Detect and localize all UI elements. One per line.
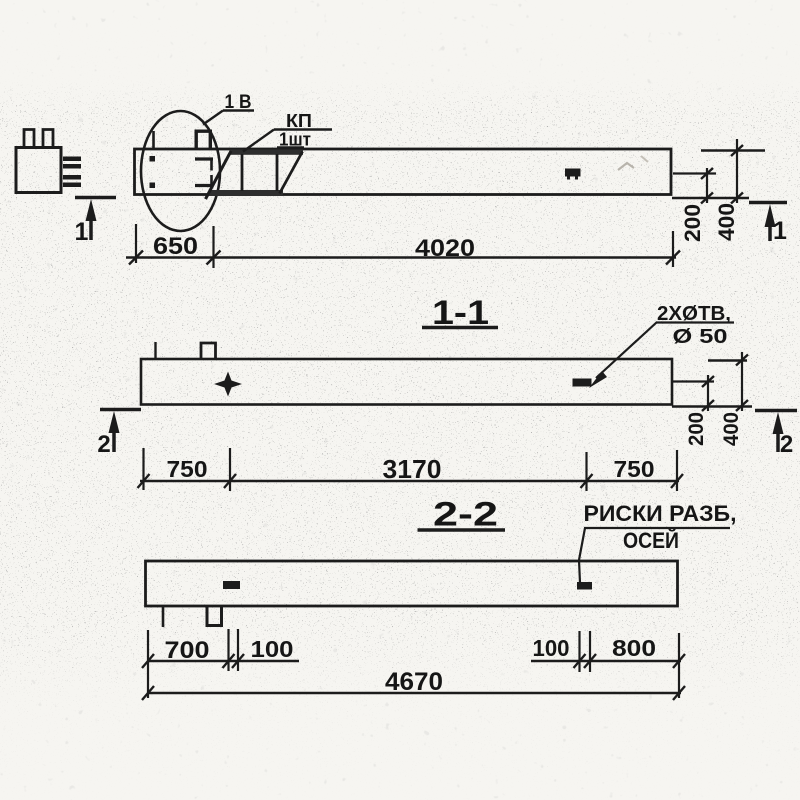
embedded plate feet	[567, 177, 570, 180]
view1 right: bottom extension line	[672, 197, 749, 199]
2-2 ext x=590	[589, 631, 591, 672]
embedded plate bar 2	[63, 164, 81, 169]
tick slash 650 left	[129, 251, 143, 265]
console bottom plate (dark)	[210, 190, 284, 196]
weld dot upper	[150, 156, 156, 162]
svg-text:400: 400	[720, 412, 743, 446]
2-2 overall slash right	[673, 686, 685, 700]
lifting loop tab A	[24, 130, 34, 148]
section mark 1 right: arrow	[765, 204, 776, 227]
1-1 right: bottom extension	[672, 405, 752, 407]
embedded plate bar 3	[63, 175, 81, 180]
1-1 dim 400 line	[741, 352, 743, 411]
label RISKI leader vert	[579, 560, 580, 583]
console right diagonal	[280, 152, 303, 194]
2-2 slash at 679	[673, 654, 685, 668]
section mark 2 left: arrow	[109, 411, 120, 433]
2-2 slash at 590	[584, 654, 596, 668]
detail ellipse	[141, 111, 220, 231]
lifting loop view 1	[196, 131, 210, 149]
1-1 slash at 143.5	[138, 474, 150, 488]
section mark 2 right: bar	[755, 409, 797, 413]
1-1 dim extension x=586.5	[585, 452, 587, 491]
beam outline view 2-2	[146, 561, 678, 606]
svg-text:100: 100	[533, 635, 570, 661]
view1 dim 200 line	[706, 168, 708, 203]
beam outline view 1	[135, 149, 672, 195]
svg-text:800: 800	[612, 635, 656, 661]
section mark 2 right: stem	[776, 433, 780, 452]
dim line 650+4020	[126, 256, 676, 259]
title 1-1 underline	[422, 326, 498, 330]
risk mark left	[223, 581, 240, 589]
svg-text:КП: КП	[286, 111, 312, 131]
1-1 dim 200 line	[707, 375, 709, 411]
1-1 dim400 slash top	[736, 355, 748, 366]
view1 dim200 slash top	[701, 168, 713, 179]
svg-text:700: 700	[165, 637, 210, 664]
2-2 ext x=679 tall	[678, 633, 680, 698]
label RISKI underline	[584, 527, 730, 529]
1-1 dim extension x=230	[229, 448, 231, 491]
embedded plate bar 1	[63, 157, 81, 162]
svg-text:4020: 4020	[415, 235, 475, 262]
1-1 dim extension x=143.5	[142, 448, 144, 490]
label 1sht underline	[277, 146, 304, 148]
hole marker right (bar)	[573, 379, 592, 387]
view1 right: top extension line	[701, 149, 765, 151]
2-2 overall slash left	[142, 686, 154, 700]
svg-text:650: 650	[153, 233, 198, 260]
tick slash 650 right	[207, 251, 221, 265]
svg-text:2: 2	[780, 431, 793, 458]
beam end view outline	[16, 148, 61, 193]
svg-text:РИСКИ РАЗБ,: РИСКИ РАЗБ,	[584, 501, 737, 526]
console top plate (dark)	[230, 150, 304, 155]
svg-text:400: 400	[714, 203, 739, 241]
svg-text:Ø 50: Ø 50	[673, 326, 728, 348]
2-2 slash at 238	[232, 654, 244, 668]
2-2 slash at 148	[142, 654, 154, 668]
1-1 dim200 slash bottom	[702, 400, 714, 411]
section mark 2 left: bar	[100, 408, 141, 412]
2-2 slash at 228.5	[223, 654, 235, 668]
section mark 1 left: bar	[75, 196, 116, 200]
weld dot lower	[150, 183, 156, 189]
loop below beam	[207, 607, 222, 626]
2-2 dim line right	[531, 660, 681, 663]
svg-text:200: 200	[680, 204, 705, 242]
view1 right: mid extension line	[673, 172, 716, 174]
section mark 2 right: arrow	[773, 412, 784, 434]
lifting loop 1-1	[201, 343, 216, 359]
tick on beam top	[152, 131, 155, 149]
dim 650/4020 extension line left	[135, 224, 137, 263]
console divider 1	[241, 154, 244, 191]
1-1 dim200 slash top	[702, 376, 714, 387]
view1 dim400 slash bottom	[731, 193, 743, 204]
risk mark right	[577, 582, 592, 590]
dim 4020 extension right	[672, 231, 674, 267]
1-1 dim line	[140, 480, 679, 483]
svg-text:750: 750	[614, 456, 655, 482]
svg-text:2: 2	[97, 431, 110, 458]
title 2-2 underline	[418, 528, 506, 532]
2-2 ext x=579.5	[578, 631, 580, 672]
rebar hook bottom right vertical	[210, 175, 213, 186]
svg-text:ОСЕЙ: ОСЕЙ	[623, 528, 679, 553]
rebar hook bottom bar	[195, 184, 214, 187]
2-2 ext x=148 tall	[147, 630, 149, 698]
label KP shelf	[274, 128, 332, 130]
hole leader arrowhead	[589, 371, 607, 388]
1-1 right: mid extension	[673, 380, 714, 382]
2-2 ext x=238	[237, 629, 239, 671]
label KP leader	[243, 130, 274, 152]
hole marker left (star)	[214, 372, 242, 397]
rebar hook top bar	[195, 157, 213, 160]
svg-text:100: 100	[251, 636, 294, 662]
rebar hook top right vertical	[210, 159, 213, 171]
section mark 1 right: stem	[768, 226, 772, 241]
1-1 slash at 586.5	[581, 474, 593, 488]
dim 650 extension mid	[212, 226, 214, 268]
2-2 ext x=228.5	[227, 629, 229, 671]
label 1B leader	[203, 111, 223, 125]
section mark 1 right: bar	[749, 201, 787, 205]
tick below beam	[162, 607, 165, 627]
section mark 1 left: arrow	[86, 199, 97, 221]
embedded plate bar 4	[63, 183, 81, 188]
tick slash 4020 right	[666, 251, 680, 265]
beam outline view 1-1	[141, 359, 672, 405]
view1 dim 400 line	[736, 139, 738, 203]
faint smudge	[618, 163, 634, 170]
svg-text:750: 750	[167, 456, 208, 482]
console divider 2	[276, 154, 279, 191]
1-1 right: top extension	[708, 359, 747, 361]
svg-text:2-2: 2-2	[433, 496, 498, 534]
view1 dim200 slash bottom	[701, 193, 713, 204]
svg-text:3170: 3170	[383, 454, 442, 484]
hole leader	[596, 322, 657, 378]
label RISKI leader diag	[579, 528, 585, 560]
svg-text:200: 200	[685, 412, 708, 446]
view1 dim400 slash top	[731, 145, 743, 156]
section mark 2 left: stem	[112, 432, 116, 452]
console left diagonal	[206, 151, 232, 199]
section mark 1 left: stem	[89, 220, 93, 240]
lifting loop tab B	[43, 130, 53, 148]
tick on top 1-1	[154, 342, 156, 359]
2-2 dim line left	[147, 660, 299, 663]
1-1 slash at 677	[671, 474, 683, 488]
1-1 dim extension x=677	[676, 450, 678, 491]
svg-text:1: 1	[773, 217, 787, 245]
1-1 slash at 230	[224, 474, 236, 488]
label 1B underline	[223, 109, 254, 111]
svg-text:1: 1	[75, 218, 89, 246]
label 2xOTV underline	[656, 321, 734, 323]
svg-text:4670: 4670	[385, 668, 443, 696]
2-2 overall dim line	[147, 692, 681, 695]
embedded plate mark view1	[565, 169, 581, 177]
2-2 slash at 579.5	[574, 654, 586, 668]
1-1 dim400 slash bottom	[736, 400, 748, 411]
